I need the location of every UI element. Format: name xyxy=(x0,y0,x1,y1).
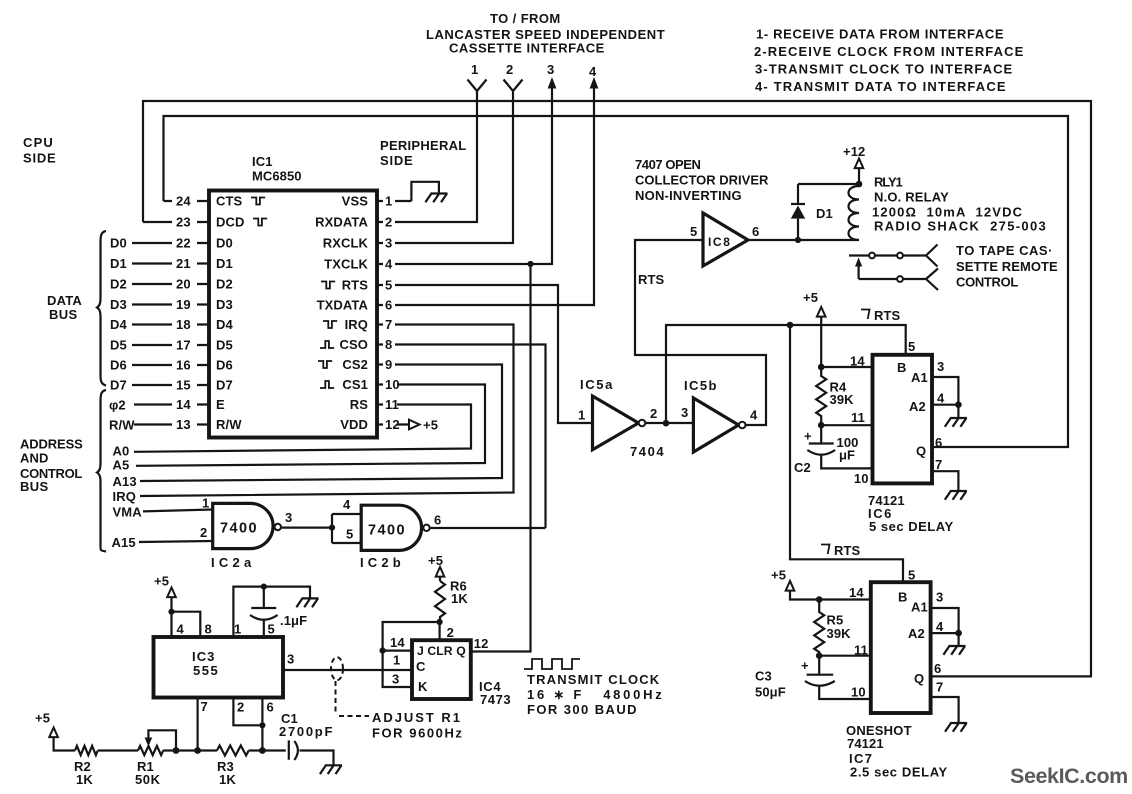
IC IC7 74121 body xyxy=(871,582,931,713)
svg-text:VSS: VSS xyxy=(342,194,369,209)
IC IC4 7473 body xyxy=(412,640,511,707)
svg-text:21: 21 xyxy=(176,256,191,271)
svg-text:2: 2 xyxy=(385,215,392,230)
svg-text:AND: AND xyxy=(20,451,48,466)
capacitor C2 100uF xyxy=(794,425,873,486)
junction: TXCLK / IC4 output xyxy=(527,261,533,267)
svg-text:FOR 9600Hz: FOR 9600Hz xyxy=(372,726,463,741)
wire: IC2a output to IC2b inputs xyxy=(281,497,361,543)
pin 18 D4 xyxy=(110,317,233,332)
svg-text:+12: +12 xyxy=(843,144,865,159)
svg-text:16 ∗ F 4800Hz: 16 ∗ F 4800Hz xyxy=(527,687,665,702)
svg-text:J CLR Q: J CLR Q xyxy=(417,644,466,658)
svg-text:4- TRANSMIT DATA TO INTERFACE: 4- TRANSMIT DATA TO INTERFACE xyxy=(755,79,1007,94)
svg-text:6: 6 xyxy=(752,224,759,239)
svg-text:2.5 sec DELAY: 2.5 sec DELAY xyxy=(850,765,948,780)
svg-text:COLLECTOR DRIVER: COLLECTOR DRIVER xyxy=(635,173,769,188)
capacitor C1 2700pF xyxy=(279,711,334,765)
svg-text:CSO: CSO xyxy=(340,337,368,352)
svg-text:50μF: 50μF xyxy=(755,685,786,700)
wire: 555 pin 1 to ground rail xyxy=(233,584,310,638)
pin 11 RS wire to A0 bus line xyxy=(113,397,472,459)
svg-text:18: 18 xyxy=(176,317,191,332)
svg-text:12: 12 xyxy=(385,417,400,432)
diode D1 xyxy=(791,184,833,240)
svg-text:7404: 7404 xyxy=(630,444,665,459)
svg-text:23: 23 xyxy=(176,215,191,230)
svg-text:12: 12 xyxy=(474,636,489,651)
pin 7 IRQ wire to IRQ bus line xyxy=(113,317,514,504)
svg-text:D1: D1 xyxy=(216,256,233,271)
note: IC6 labels xyxy=(868,493,954,534)
ground: IC7 pin 7 xyxy=(945,723,967,732)
svg-text:D2: D2 xyxy=(110,277,127,292)
svg-text:TXCLK: TXCLK xyxy=(324,257,368,272)
svg-text:3: 3 xyxy=(547,62,554,77)
svg-text:D6: D6 xyxy=(110,358,127,373)
IC IC3 555 body xyxy=(154,637,284,698)
svg-text:A13: A13 xyxy=(113,474,137,489)
power: +12 arrow xyxy=(843,144,865,184)
svg-text:A0: A0 xyxy=(113,444,130,459)
wire: IC4 Q pin 12 up to TXCLK junction xyxy=(471,264,531,652)
svg-text:1: 1 xyxy=(471,62,478,77)
svg-text:IC2a: IC2a xyxy=(211,555,256,570)
svg-text:B: B xyxy=(898,590,908,605)
svg-text:TO TAPE CAS·: TO TAPE CAS· xyxy=(956,243,1053,258)
svg-text:8: 8 xyxy=(205,622,212,637)
pin 16 D6 xyxy=(110,358,233,373)
svg-text:15: 15 xyxy=(176,378,191,393)
capacitor .1uF xyxy=(250,587,307,637)
wire: 555 pin 7 to rail xyxy=(198,698,208,751)
wire: NOT-RTS branch down to IC7 B pin xyxy=(790,325,915,583)
svg-text:RLY1: RLY1 xyxy=(874,175,903,190)
svg-text:6: 6 xyxy=(434,513,441,528)
svg-text:D5: D5 xyxy=(110,338,127,353)
svg-text:IC1: IC1 xyxy=(252,154,273,169)
svg-text:5: 5 xyxy=(908,568,915,583)
svg-text:CS1: CS1 xyxy=(342,377,368,392)
svg-text:3: 3 xyxy=(285,510,292,525)
power: +5 arrow for 555 xyxy=(154,574,176,612)
svg-text:+5: +5 xyxy=(423,418,438,433)
svg-text:CPU: CPU xyxy=(23,135,54,150)
potentiometer R1 50K xyxy=(135,730,176,787)
wire: RTS net IC5b output to IC8 input xyxy=(635,240,766,425)
svg-text:2: 2 xyxy=(447,625,454,640)
svg-text:PERIPHERAL: PERIPHERAL xyxy=(380,138,467,153)
junction: R4 bottom / pin 11 / C2 xyxy=(818,422,825,429)
node: TO/FROM interface title xyxy=(426,11,665,56)
svg-text:SIDE: SIDE xyxy=(380,153,413,168)
pin 22 D0 xyxy=(110,236,233,251)
svg-text:6: 6 xyxy=(935,435,942,450)
svg-text:4: 4 xyxy=(750,408,758,423)
svg-text:RXCLK: RXCLK xyxy=(323,236,369,251)
pin 9 CS2 wire to A13 bus line xyxy=(113,357,503,489)
IC IC1 MC6850 body xyxy=(209,191,377,438)
svg-text:Q: Q xyxy=(916,444,926,459)
svg-text:5: 5 xyxy=(346,527,353,542)
resistor R3 1K xyxy=(217,746,286,788)
wire: +5 node to 555 pins 4 and 8 xyxy=(172,612,212,637)
svg-text:5: 5 xyxy=(908,339,915,354)
note: ADJUST R1 text xyxy=(372,710,463,741)
svg-text:SIDE: SIDE xyxy=(23,151,56,166)
svg-text:4: 4 xyxy=(936,619,944,634)
svg-text:D0: D0 xyxy=(110,236,127,251)
svg-text:7: 7 xyxy=(385,317,392,332)
svg-text:R/W: R/W xyxy=(216,417,242,432)
svg-text:CASSETTE INTERFACE: CASSETTE INTERFACE xyxy=(449,41,605,56)
pin 8 CS0 wire to IC2b output xyxy=(320,337,546,528)
junction: R1 right terminal on rail xyxy=(173,747,180,754)
resistor R6 1K xyxy=(435,579,468,623)
wire: IC6 Q output pin 6 xyxy=(935,435,942,450)
svg-text:RTS: RTS xyxy=(342,278,369,293)
svg-text:+5: +5 xyxy=(803,290,818,305)
svg-text:10: 10 xyxy=(854,471,869,486)
svg-text:17: 17 xyxy=(176,338,191,353)
svg-text:11: 11 xyxy=(385,397,399,412)
svg-text:B: B xyxy=(897,360,907,375)
svg-text:74121: 74121 xyxy=(847,736,884,751)
ground: IC6 pin 7 xyxy=(945,491,967,500)
svg-text:13: 13 xyxy=(176,417,191,432)
pin 20 D2 xyxy=(110,277,233,292)
wire: IC6 pin 7 to ground xyxy=(932,457,958,491)
terminal 2 (receive clock) xyxy=(504,62,523,91)
svg-text:E: E xyxy=(216,397,225,412)
svg-text:4: 4 xyxy=(589,64,597,79)
svg-text:VDD: VDD xyxy=(340,417,368,432)
svg-text:μF: μF xyxy=(839,448,855,463)
pin 15 D7 xyxy=(110,378,233,393)
svg-text:A1: A1 xyxy=(911,600,928,615)
pin 19 D3 xyxy=(110,297,233,312)
svg-text:TRANSMIT CLOCK: TRANSMIT CLOCK xyxy=(527,672,660,687)
wire: 555 pin 2 to pin 6 xyxy=(233,698,265,729)
svg-text:5: 5 xyxy=(690,224,697,239)
svg-text:D6: D6 xyxy=(216,358,233,373)
svg-text:2: 2 xyxy=(237,700,244,715)
svg-text:TO / FROM: TO / FROM xyxy=(490,11,561,26)
wire: NOT-RTS net from IC5 junction to IC6 B pin xyxy=(666,308,915,423)
svg-text:7: 7 xyxy=(935,457,942,472)
op-amp: none; IC U1 label xyxy=(252,154,302,184)
svg-text:N.O. RELAY: N.O. RELAY xyxy=(874,190,949,205)
note: IC7 labels xyxy=(846,723,948,780)
svg-text:SETTE REMOTE: SETTE REMOTE xyxy=(956,259,1058,274)
svg-text:11: 11 xyxy=(854,643,868,658)
capacitor C3 50uF xyxy=(755,656,871,700)
svg-text:4: 4 xyxy=(385,257,393,272)
resistor R2 1K xyxy=(74,746,138,787)
svg-text:1K: 1K xyxy=(451,591,468,606)
svg-text:IC3: IC3 xyxy=(192,649,216,664)
pin 24 CTS xyxy=(164,194,266,209)
svg-text:1200Ω 10mA 12VDC: 1200Ω 10mA 12VDC xyxy=(872,205,1023,220)
svg-text:5: 5 xyxy=(268,622,275,637)
svg-text:DCD: DCD xyxy=(216,215,244,230)
svg-text:2: 2 xyxy=(650,406,657,421)
note: relay description xyxy=(872,175,1047,234)
junction: +12 node xyxy=(856,181,863,188)
svg-text:RTS: RTS xyxy=(874,308,901,323)
svg-text:3: 3 xyxy=(681,405,688,420)
svg-text:10: 10 xyxy=(851,685,866,700)
pin 5 RTS wire down to IC5a input xyxy=(321,278,593,424)
power: +5 arrow at IC6 xyxy=(803,290,826,367)
svg-text:3: 3 xyxy=(287,652,294,667)
node: adjust point dashed circle xyxy=(331,657,369,716)
svg-text:NON-INVERTING: NON-INVERTING xyxy=(635,188,742,203)
note: 7407 description xyxy=(635,157,769,203)
svg-text:24: 24 xyxy=(176,194,191,209)
svg-text:11: 11 xyxy=(851,410,865,425)
buffer IC8 7407 xyxy=(690,213,759,266)
svg-text:BUS: BUS xyxy=(20,479,48,494)
gate IC2a 7400 NAND xyxy=(211,503,281,570)
svg-text:A15: A15 xyxy=(112,535,136,550)
terminal 4 (transmit data) arrow xyxy=(589,64,598,89)
junction: R6 / IC4 pins node xyxy=(437,619,443,625)
svg-text:2: 2 xyxy=(200,525,207,540)
svg-text:1K: 1K xyxy=(76,772,93,787)
svg-text:D3: D3 xyxy=(216,297,233,312)
svg-text:TXDATA: TXDATA xyxy=(317,298,369,313)
svg-text:+: + xyxy=(801,658,809,673)
junction: diode bottom node xyxy=(795,237,801,243)
pin 13 R/W xyxy=(109,417,242,433)
note: TO TAPE CASSETTE REMOTE CONTROL xyxy=(956,243,1058,290)
wire: diode top to +12 node xyxy=(798,183,859,185)
svg-text:39K: 39K xyxy=(830,392,855,407)
svg-text:DATA: DATA xyxy=(47,293,82,308)
svg-text:VMA: VMA xyxy=(113,505,143,520)
svg-text:1K: 1K xyxy=(219,772,236,787)
svg-text:+5: +5 xyxy=(771,568,786,583)
svg-text:7400: 7400 xyxy=(368,523,406,539)
svg-text:+5: +5 xyxy=(154,574,169,589)
switch: relay contacts to tape cassette xyxy=(849,245,938,291)
svg-text:6: 6 xyxy=(385,298,392,313)
note: interface signal legend xyxy=(754,27,1024,95)
svg-text:6: 6 xyxy=(267,700,274,715)
svg-text:16: 16 xyxy=(176,358,191,373)
svg-text:C3: C3 xyxy=(755,669,772,684)
svg-text:4: 4 xyxy=(177,622,185,637)
pin 21 D1 xyxy=(110,256,233,271)
junction: R5 bottom / pin 11 / C3 xyxy=(816,652,823,659)
svg-text:D7: D7 xyxy=(110,378,127,393)
wire: 555 pin 6 down to rail xyxy=(262,698,273,751)
junction: R5 top xyxy=(816,596,823,603)
svg-text:ADDRESS: ADDRESS xyxy=(20,437,83,452)
junction: NOT-RTS branch node xyxy=(787,322,794,329)
svg-text:39K: 39K xyxy=(827,626,852,641)
svg-text:CS2: CS2 xyxy=(342,357,368,372)
svg-text:D2: D2 xyxy=(216,277,233,292)
wire: R6 node to IC4 pins 14 and 3 xyxy=(380,622,440,687)
svg-text:2-RECEIVE CLOCK FROM INTERFACE: 2-RECEIVE CLOCK FROM INTERFACE xyxy=(754,44,1024,59)
svg-text:7: 7 xyxy=(936,680,943,695)
svg-text:3-TRANSMIT CLOCK TO INTERFACE: 3-TRANSMIT CLOCK TO INTERFACE xyxy=(755,62,1013,77)
svg-text:7407 OPEN: 7407 OPEN xyxy=(635,157,700,172)
svg-text:IRQ: IRQ xyxy=(113,489,136,504)
svg-text:C2: C2 xyxy=(794,460,811,475)
svg-text:SeekIC.com: SeekIC.com xyxy=(1010,764,1128,788)
svg-text:IC8: IC8 xyxy=(708,235,731,249)
svg-text:D4: D4 xyxy=(110,317,127,332)
svg-text:C: C xyxy=(416,659,426,674)
wire: DCD feedback net (IC7 Q to IC1 DCD pin 23) xyxy=(143,101,1091,676)
svg-text:IC5b: IC5b xyxy=(684,378,718,393)
wire: A15 to IC2a pin 2 xyxy=(112,525,213,550)
svg-text:+: + xyxy=(804,429,812,444)
svg-text:2: 2 xyxy=(506,62,513,77)
svg-text:10: 10 xyxy=(385,377,400,392)
svg-text:R/W: R/W xyxy=(109,418,135,433)
pin 12 VDD +5 arrow xyxy=(340,417,438,433)
power: +5 arrow bottom left xyxy=(35,711,75,751)
svg-text:2700pF: 2700pF xyxy=(279,724,334,739)
svg-text:CONTROL: CONTROL xyxy=(956,275,1018,290)
svg-text:A2: A2 xyxy=(909,399,926,414)
resistor R5 39K xyxy=(814,600,851,656)
junction: 555 +5 node xyxy=(168,609,174,615)
pin 14 E / phi2 xyxy=(109,397,225,413)
svg-text:RS: RS xyxy=(350,397,368,412)
svg-text:IC2b: IC2b xyxy=(360,555,405,570)
resistor R4 39K xyxy=(816,367,854,425)
pin 23 DCD xyxy=(143,215,267,230)
svg-text:FOR 300 BAUD: FOR 300 BAUD xyxy=(527,702,638,717)
IC IC6 74121 body xyxy=(873,355,933,484)
ground: C1 ground xyxy=(320,765,342,774)
node: transmit clock waveform xyxy=(524,659,580,669)
wire: IC7 pin 7 to ground xyxy=(931,680,959,723)
svg-text:5: 5 xyxy=(385,278,392,293)
svg-text:MC6850: MC6850 xyxy=(252,169,302,184)
wire: 555 pin 3 output to IC4 C input xyxy=(283,652,412,671)
ground: IC7 A inputs xyxy=(943,646,965,655)
svg-text:A1: A1 xyxy=(911,370,928,385)
wire: IC6 pins 3 and 4 tied to ground xyxy=(932,359,962,418)
svg-text:1- RECEIVE DATA FROM INTERFACE: 1- RECEIVE DATA FROM INTERFACE xyxy=(756,27,1004,42)
junction: 555 pin7 on rail xyxy=(194,747,201,754)
svg-text:φ2: φ2 xyxy=(109,398,126,413)
svg-text:8: 8 xyxy=(385,337,392,352)
svg-text:D3: D3 xyxy=(110,297,127,312)
svg-text:4: 4 xyxy=(937,391,945,406)
svg-text:14: 14 xyxy=(850,354,865,369)
wire: IC2b output pin 6 xyxy=(430,513,546,529)
node: PERIPHERAL SIDE label xyxy=(380,138,467,168)
pin 6 TXDATA wire to terminal 4 xyxy=(317,84,594,313)
inductor: RLY1 relay coil xyxy=(849,184,860,240)
svg-text:D1: D1 xyxy=(816,206,833,221)
svg-text:IRQ: IRQ xyxy=(345,317,368,332)
svg-text:3: 3 xyxy=(936,590,943,605)
node: CPU SIDE label xyxy=(23,135,56,166)
pin 1 VSS xyxy=(342,194,412,209)
wire: VMA to IC2a pin 1 xyxy=(113,496,213,520)
svg-text:D1: D1 xyxy=(110,256,127,271)
pin 10 CS1 wire to A5 bus line xyxy=(113,377,486,473)
junction: IC5a out / IC5b in xyxy=(630,405,693,459)
inverter IC5a 7404 xyxy=(578,377,657,450)
svg-text:CTS: CTS xyxy=(216,194,243,209)
svg-text:RADIO SHACK 275-003: RADIO SHACK 275-003 xyxy=(874,219,1047,234)
wire: CTS feedback net (IC6 Q to IC1 CTS pin 24) xyxy=(164,116,1069,447)
svg-text:14: 14 xyxy=(849,585,864,600)
junction: R4 top / pin 14 xyxy=(818,364,825,371)
svg-text:1: 1 xyxy=(385,194,392,209)
svg-text:+5: +5 xyxy=(428,553,443,568)
wire: IC8 output to relay xyxy=(748,239,859,241)
svg-text:14: 14 xyxy=(390,635,405,650)
svg-text:7473: 7473 xyxy=(480,692,511,707)
svg-text:1: 1 xyxy=(578,408,585,423)
svg-text:RTS: RTS xyxy=(638,272,665,287)
svg-text:1: 1 xyxy=(202,496,209,511)
note: transmit clock text xyxy=(527,672,665,717)
terminal 3 (transmit clock) arrow xyxy=(547,62,556,89)
svg-text:D0: D0 xyxy=(216,236,233,251)
junction: 555 pin6 on rail xyxy=(259,747,266,754)
pin 2 RXDATA wire to terminal 1 xyxy=(315,91,477,230)
wire: rail R1 to R3 xyxy=(176,749,217,751)
svg-text:Q: Q xyxy=(914,671,924,686)
svg-text:D5: D5 xyxy=(216,338,233,353)
wire: R6 node to IC4 CLR pin 2 xyxy=(440,622,454,640)
svg-text:19: 19 xyxy=(176,297,191,312)
svg-text:9: 9 xyxy=(385,357,392,372)
svg-text:5 sec DELAY: 5 sec DELAY xyxy=(869,519,954,534)
pin 4 TXCLK wire to terminal 3 xyxy=(324,84,552,272)
svg-text:7400: 7400 xyxy=(220,521,258,537)
node: DATA BUS label and brace xyxy=(47,231,106,386)
svg-text:.1μF: .1μF xyxy=(280,613,307,628)
svg-text:BUS: BUS xyxy=(49,307,77,322)
power: +5 arrow at IC7 xyxy=(771,568,871,601)
svg-text:555: 555 xyxy=(193,663,219,678)
svg-text:+5: +5 xyxy=(35,711,50,726)
svg-text:A5: A5 xyxy=(113,458,130,473)
wire: IC6 pin 11 xyxy=(821,410,872,425)
gate IC2b 7400 NAND xyxy=(360,505,430,570)
inverter IC5b 7404 xyxy=(684,378,758,452)
svg-text:D4: D4 xyxy=(216,317,233,332)
wire: IC7 pin 11 xyxy=(819,643,871,658)
wire: IC7 pins 3 and 4 tied to ground xyxy=(931,590,962,646)
svg-text:IC5a: IC5a xyxy=(580,377,614,392)
ground: IC6 A inputs xyxy=(945,418,967,427)
svg-text:4: 4 xyxy=(343,497,351,512)
wire: IC6 pin 14 xyxy=(821,354,872,369)
svg-text:1: 1 xyxy=(234,622,241,637)
node: ADDRESS AND CONTROL BUS label and brace xyxy=(20,390,106,552)
svg-text:50K: 50K xyxy=(135,772,161,787)
power: +5 arrow for R6 xyxy=(428,553,444,581)
wire: IC7 Q output pin 6 xyxy=(934,661,941,676)
svg-text:RTS: RTS xyxy=(834,543,861,558)
svg-text:6: 6 xyxy=(934,661,941,676)
svg-text:K: K xyxy=(418,679,428,694)
svg-text:14: 14 xyxy=(176,397,191,412)
